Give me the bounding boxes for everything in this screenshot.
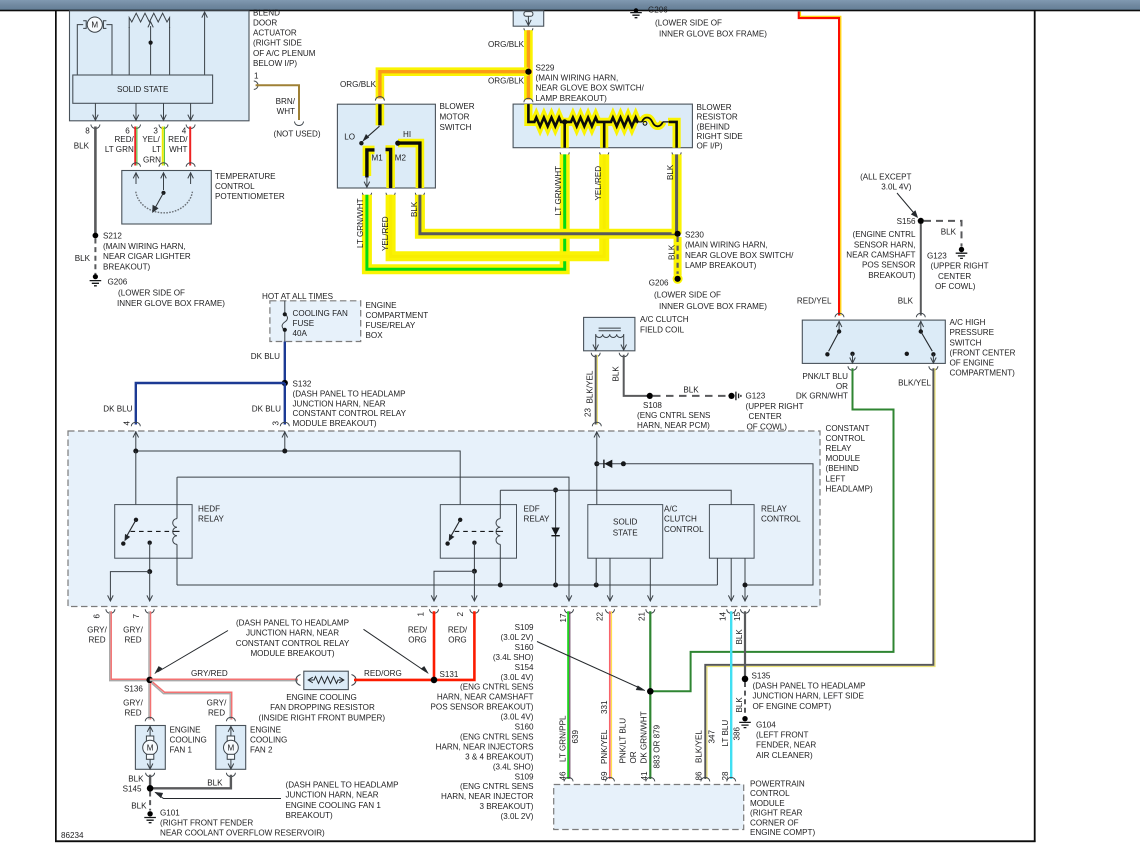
HEDF relay box	[115, 505, 225, 559]
svg-text:69: 69	[600, 771, 609, 781]
wire BLK dashed S135 to G104	[735, 682, 745, 716]
svg-text:23: 23	[583, 407, 592, 417]
svg-text:RED/: RED/	[408, 626, 428, 635]
ground G123 (near S108)	[728, 392, 803, 432]
wire ORG/BLK vertical (fuse to S229 to blower resistor)	[488, 30, 528, 99]
svg-text:LT GRN: LT GRN	[105, 145, 134, 154]
svg-text:BLK/YEL: BLK/YEL	[586, 370, 595, 403]
svg-text:YEL/RED: YEL/RED	[594, 166, 603, 201]
svg-text:883 OR 879: 883 OR 879	[653, 724, 662, 768]
wire BLK field coil to S108	[612, 355, 650, 396]
CCRM coil feed rail y477 to pin 17	[177, 477, 572, 601]
svg-text:M2: M2	[395, 154, 407, 163]
svg-text:GRY/: GRY/	[123, 699, 143, 708]
svg-text:(MAIN WIRING HARN,: (MAIN WIRING HARN,	[685, 241, 768, 250]
svg-text:6: 6	[93, 614, 102, 619]
svg-text:7: 7	[132, 614, 141, 619]
svg-text:OF A/C PLENUM: OF A/C PLENUM	[253, 49, 316, 58]
svg-text:CONTROL: CONTROL	[215, 182, 255, 191]
svg-text:ENGINE COOLING FAN 1: ENGINE COOLING FAN 1	[286, 801, 382, 810]
svg-text:OF I/P): OF I/P)	[697, 142, 723, 151]
svg-text:RIGHT SIDE: RIGHT SIDE	[697, 132, 744, 141]
svg-text:BLOWER: BLOWER	[697, 103, 732, 112]
svg-text:PRESSURE: PRESSURE	[950, 328, 995, 337]
ground G104	[739, 716, 816, 760]
svg-text:FAN DROPPING RESISTOR: FAN DROPPING RESISTOR	[270, 703, 375, 712]
svg-text:COOLING: COOLING	[250, 735, 287, 744]
svg-text:AIR CLEANER): AIR CLEANER)	[756, 751, 813, 760]
svg-text:G206: G206	[649, 279, 669, 288]
svg-text:LT GRN/PPL: LT GRN/PPL	[559, 715, 568, 762]
svg-text:INNER GLOVE BOX FRAME): INNER GLOVE BOX FRAME)	[659, 30, 767, 39]
blower switch feed wire (bold)	[376, 104, 385, 125]
svg-text:17: 17	[559, 613, 568, 623]
wire BLK fan 2 to S145	[152, 773, 235, 789]
CCRM pin 23 wire and top diode D2	[594, 431, 813, 585]
svg-text:ORG: ORG	[408, 636, 426, 645]
svg-text:RELAY: RELAY	[524, 515, 551, 524]
svg-text:(ENG CNTRL SENS: (ENG CNTRL SENS	[460, 683, 534, 692]
header bar	[0, 0, 1140, 11]
ground G206 bottom	[649, 274, 768, 311]
svg-text:NEAR GLOVE BOX SWITCH/: NEAR GLOVE BOX SWITCH/	[536, 84, 645, 93]
svg-text:JUNCTION HARN, NEAR: JUNCTION HARN, NEAR	[246, 629, 339, 638]
wire BLK fan 1 to S145	[128, 773, 154, 789]
pin 1 BRN/WHT (not used)	[254, 72, 321, 139]
CCRM switched feed rail y451	[133, 449, 460, 521]
svg-text:MOTOR: MOTOR	[440, 112, 470, 121]
svg-text:ORG/BLK: ORG/BLK	[488, 76, 525, 85]
fuse stub box top middle	[513, 11, 544, 33]
svg-text:RED: RED	[88, 636, 105, 645]
svg-text:(3.0L 4V): (3.0L 4V)	[501, 673, 534, 682]
junction DK GRN/WHT	[647, 688, 654, 695]
svg-text:3 & 4 BREAKOUT): 3 & 4 BREAKOUT)	[465, 752, 534, 761]
svg-text:BLOWER: BLOWER	[440, 102, 475, 111]
svg-text:(MAIN WIRING HARN,: (MAIN WIRING HARN,	[103, 242, 186, 251]
svg-text:BLK/YEL: BLK/YEL	[695, 730, 704, 763]
svg-text:LO: LO	[344, 133, 355, 142]
svg-text:LT GRN/WHT: LT GRN/WHT	[356, 198, 365, 248]
wire GRY/RED CCRM pin 6 to S136	[87, 611, 147, 680]
relay control bottom pins	[717, 558, 747, 601]
svg-text:MODULE: MODULE	[826, 454, 861, 463]
svg-text:3: 3	[272, 421, 281, 426]
svg-text:HARN, NEAR CAMSHAFT: HARN, NEAR CAMSHAFT	[437, 693, 534, 702]
svg-text:ORG/BLK: ORG/BLK	[488, 40, 525, 49]
svg-text:28: 28	[721, 771, 730, 781]
splice S131	[431, 670, 459, 683]
svg-text:DK BLU: DK BLU	[103, 405, 132, 414]
svg-text:(ALL EXCEPT: (ALL EXCEPT	[860, 173, 911, 182]
splice S229	[524, 63, 645, 103]
svg-text:RED/ORG: RED/ORG	[364, 669, 402, 678]
solid state box (blend door actuator)	[73, 75, 213, 103]
svg-text:46: 46	[559, 771, 568, 781]
wire GRY/RED S136 to fan 2	[152, 682, 236, 721]
svg-text:(DASH PANEL TO HEADLAMP: (DASH PANEL TO HEADLAMP	[286, 781, 399, 790]
diode D1 (EDF)	[551, 488, 559, 586]
svg-text:S136: S136	[124, 685, 143, 694]
svg-text:POS SENSOR BREAKOUT): POS SENSOR BREAKOUT)	[431, 703, 534, 712]
wire BLK/YEL from A/C switch to PCM pin 86	[695, 368, 935, 781]
svg-text:S109: S109	[515, 772, 534, 781]
svg-text:ENGINE: ENGINE	[366, 301, 398, 310]
svg-text:2: 2	[456, 612, 465, 617]
svg-text:COOLING FAN: COOLING FAN	[293, 309, 348, 318]
svg-text:STATE: STATE	[613, 529, 638, 538]
svg-text:(DASH PANEL TO HEADLAMP: (DASH PANEL TO HEADLAMP	[293, 390, 406, 399]
ground G123 (upper right of cowl)	[927, 247, 989, 291]
svg-text:RED: RED	[208, 709, 225, 718]
svg-text:COOLING: COOLING	[170, 735, 207, 744]
svg-text:(3.0L 2V): (3.0L 2V)	[501, 812, 534, 821]
svg-text:(DASH PANEL TO HEADLAMP: (DASH PANEL TO HEADLAMP	[236, 618, 349, 627]
constant control relay module box	[68, 424, 873, 607]
CCRM pin 3 entry	[282, 431, 288, 451]
svg-text:HARN, NEAR INJECTORS: HARN, NEAR INJECTORS	[436, 742, 534, 751]
wire LT BLU CCRM pin 14 to PCM pin 28	[721, 611, 742, 781]
HEDF relay internals	[121, 477, 179, 585]
svg-text:(RIGHT SIDE: (RIGHT SIDE	[253, 39, 302, 48]
svg-text:NEAR CAMSHAFT: NEAR CAMSHAFT	[846, 251, 915, 260]
ground G206 left	[90, 274, 226, 308]
svg-text:A/C: A/C	[664, 505, 678, 514]
svg-text:BELOW I/P): BELOW I/P)	[253, 59, 297, 68]
engine cooling fan dropping resistor	[259, 671, 386, 722]
svg-text:(ENG CNTRL SENS: (ENG CNTRL SENS	[460, 733, 534, 742]
svg-text:CORNER OF: CORNER OF	[750, 818, 799, 827]
svg-text:RED/YEL: RED/YEL	[797, 296, 832, 305]
svg-text:LEFT: LEFT	[826, 474, 846, 483]
svg-text:ORG/BLK: ORG/BLK	[340, 80, 377, 89]
svg-text:YEL/: YEL/	[142, 135, 160, 144]
svg-text:POTENTIOMETER: POTENTIOMETER	[215, 192, 285, 201]
svg-text:MODULE BREAKOUT): MODULE BREAKOUT)	[250, 649, 334, 658]
actuator pins 8 6 3 4	[85, 103, 195, 135]
svg-text:S135: S135	[752, 671, 771, 680]
svg-text:DK BLU: DK BLU	[252, 405, 281, 414]
svg-text:GRN: GRN	[143, 155, 161, 164]
blower motor switch box	[337, 102, 474, 188]
svg-text:FUSE: FUSE	[293, 319, 315, 328]
svg-text:S145: S145	[123, 785, 142, 794]
svg-text:LAMP BREAKOUT): LAMP BREAKOUT)	[685, 261, 757, 270]
svg-text:CONTROL: CONTROL	[664, 525, 704, 534]
svg-text:LAMP BREAKOUT): LAMP BREAKOUT)	[536, 94, 608, 103]
svg-text:WHT: WHT	[169, 145, 187, 154]
A/C clutch field coil box	[584, 315, 689, 357]
svg-text:OF ENGINE: OF ENGINE	[950, 359, 995, 368]
connector cups below blower switch	[362, 193, 424, 197]
svg-text:(LOWER SIDE OF: (LOWER SIDE OF	[118, 288, 185, 297]
svg-text:40A: 40A	[293, 329, 308, 338]
svg-text:G101: G101	[160, 808, 180, 817]
splice list text block	[431, 623, 535, 821]
svg-text:(RIGHT REAR: (RIGHT REAR	[750, 809, 803, 818]
wire DK BLU S132 to CCRM pin 4	[103, 383, 285, 426]
blower switch M2 contact	[386, 150, 407, 189]
svg-text:BOX: BOX	[366, 331, 384, 340]
svg-text:RELAY: RELAY	[761, 505, 788, 514]
svg-text:JUNCTION HARN, NEAR: JUNCTION HARN, NEAR	[286, 791, 379, 800]
svg-text:A/C CLUTCH: A/C CLUTCH	[640, 315, 689, 324]
svg-text:JUNCTION HARN, NEAR: JUNCTION HARN, NEAR	[293, 399, 386, 408]
svg-text:FIELD COIL: FIELD COIL	[640, 325, 685, 334]
svg-text:4: 4	[123, 421, 132, 426]
svg-text:BLK: BLK	[683, 385, 699, 394]
svg-text:S212: S212	[103, 232, 122, 241]
svg-text:(BEHIND: (BEHIND	[826, 464, 859, 473]
svg-text:NEAR CIGAR LIGHTER: NEAR CIGAR LIGHTER	[103, 252, 191, 261]
svg-text:(3.0L 4V): (3.0L 4V)	[501, 713, 534, 722]
svg-text:M1: M1	[372, 154, 384, 163]
svg-text:SOLID STATE: SOLID STATE	[117, 85, 169, 94]
wire ORG/BLK branch to blower switch	[340, 72, 532, 101]
svg-text:TEMPERATURE: TEMPERATURE	[215, 172, 276, 181]
svg-text:CONTROL: CONTROL	[826, 434, 866, 443]
wire BLK (resistor to S230)	[666, 154, 676, 233]
wire actuator top right	[202, 12, 208, 75]
svg-text:POS SENSOR: POS SENSOR	[862, 261, 916, 270]
svg-text:LT GRN/WHT: LT GRN/WHT	[554, 166, 563, 216]
EDF output junction to pins 1 and 2	[431, 569, 477, 601]
wire DK BLU S132 to CCRM pin 3	[252, 383, 290, 426]
CCRM solid state box	[588, 505, 704, 559]
svg-text:EDF: EDF	[524, 505, 540, 514]
svg-text:BLK: BLK	[410, 201, 419, 217]
svg-text:(UPPER RIGHT: (UPPER RIGHT	[931, 262, 989, 271]
svg-text:S132: S132	[293, 379, 312, 388]
svg-text:S230: S230	[685, 230, 704, 239]
svg-text:GRY/: GRY/	[123, 626, 143, 635]
connector cups below A/C pressure switch	[796, 366, 938, 400]
wire BLK dashed S212 to G206	[75, 239, 96, 276]
wire DK BLU fuse to S132	[251, 342, 285, 384]
svg-text:MODULE BREAKOUT): MODULE BREAKOUT)	[293, 419, 377, 428]
splice S212	[93, 232, 191, 272]
wire BLK dashed S156 to G123	[924, 221, 962, 247]
svg-text:HARN, NEAR PCM): HARN, NEAR PCM)	[637, 421, 710, 430]
svg-text:OR: OR	[629, 751, 638, 763]
svg-text:BLK: BLK	[666, 164, 675, 180]
svg-text:ENGINE COOLING: ENGINE COOLING	[286, 693, 357, 702]
svg-text:PNK/LT BLU: PNK/LT BLU	[802, 372, 848, 381]
svg-text:BREAKOUT): BREAKOUT)	[286, 811, 334, 820]
svg-text:BLK: BLK	[612, 366, 621, 382]
svg-text:CONSTANT CONTROL RELAY: CONSTANT CONTROL RELAY	[293, 409, 407, 418]
blower switch blade and LO contact	[344, 126, 411, 145]
svg-text:(ENG CNTRL SENS: (ENG CNTRL SENS	[460, 782, 534, 791]
CCRM coil return rail y585	[177, 583, 717, 588]
svg-text:RED/: RED/	[114, 135, 134, 144]
wire BLK/YEL field coil to CCRM pin 23	[583, 355, 601, 426]
temperature control potentiometer box	[122, 163, 285, 224]
wire RED/ORG CCRM pin 1 to S131	[408, 611, 468, 680]
svg-text:BLK: BLK	[668, 244, 677, 260]
svg-text:(LOWER SIDE OF: (LOWER SIDE OF	[655, 18, 722, 27]
svg-text:RED/: RED/	[168, 135, 188, 144]
powertrain control module box	[554, 780, 816, 838]
svg-text:FAN 1: FAN 1	[170, 745, 193, 754]
svg-text:INNER GLOVE BOX FRAME): INNER GLOVE BOX FRAME)	[659, 302, 767, 311]
wire BLK S156 to A/C pressure switch	[898, 224, 926, 317]
svg-text:G123: G123	[927, 251, 947, 260]
svg-text:S160: S160	[515, 643, 534, 652]
svg-text:639: 639	[571, 729, 580, 743]
svg-text:S156: S156	[897, 217, 916, 226]
svg-text:BLK: BLK	[74, 141, 90, 150]
svg-text:PNK/LT BLU: PNK/LT BLU	[619, 718, 628, 764]
svg-text:NEAR COOLANT OVERFLOW RESERVOI: NEAR COOLANT OVERFLOW RESERVOIR)	[160, 829, 325, 838]
wire DK GRN/WHT from A/C switch to DK GRN/WHT junction	[652, 368, 894, 691]
svg-text:BREAKOUT): BREAKOUT)	[103, 262, 151, 271]
svg-text:21: 21	[638, 611, 647, 621]
CCRM bottom connector cups	[93, 609, 750, 622]
svg-text:RELAY: RELAY	[826, 444, 853, 453]
svg-text:(INSIDE RIGHT FRONT BUMPER): (INSIDE RIGHT FRONT BUMPER)	[259, 713, 386, 722]
wire RED/LT GRN pin 6	[105, 127, 137, 166]
svg-text:ACTUATOR: ACTUATOR	[253, 29, 297, 38]
A/C pressure switch left contacts	[825, 321, 855, 363]
svg-text:(UPPER RIGHT: (UPPER RIGHT	[746, 402, 804, 411]
leader from splice list to DK GRN/WHT junction	[537, 642, 645, 691]
svg-text:CONSTANT CONTROL RELAY: CONSTANT CONTROL RELAY	[236, 639, 350, 648]
svg-text:RED/: RED/	[448, 626, 468, 635]
svg-text:CENTER: CENTER	[938, 272, 971, 281]
motor M (blend door actuator)	[77, 17, 112, 75]
svg-text:HEADLAMP): HEADLAMP)	[826, 484, 874, 493]
EDF relay internals	[445, 490, 503, 585]
svg-text:SOLID: SOLID	[613, 517, 637, 526]
EDF relay box	[440, 505, 550, 559]
svg-text:22: 22	[596, 611, 605, 621]
svg-text:HEDF: HEDF	[198, 505, 220, 514]
svg-text:MODULE: MODULE	[750, 799, 785, 808]
svg-text:BLK: BLK	[941, 227, 957, 236]
svg-text:CONSTANT: CONSTANT	[826, 424, 870, 433]
wire PNK/LT BLU or DK GRN/WHT CCRM pin 21 to PCM pin 41	[619, 611, 662, 781]
svg-text:1: 1	[254, 72, 259, 81]
svg-text:HARN, NEAR INJECTOR: HARN, NEAR INJECTOR	[441, 792, 534, 801]
svg-text:(MAIN WIRING HARN,: (MAIN WIRING HARN,	[536, 74, 619, 83]
blower switch HI contact	[395, 141, 420, 189]
svg-text:RED: RED	[124, 636, 141, 645]
wire BLK CCRM pin 15 to S135	[735, 611, 745, 679]
svg-text:331: 331	[600, 700, 609, 714]
svg-text:(ENG CNTRL SENS: (ENG CNTRL SENS	[637, 411, 711, 420]
ground G101	[144, 808, 325, 837]
svg-text:CONTROL: CONTROL	[761, 515, 801, 524]
svg-text:SENSOR HARN,: SENSOR HARN,	[854, 240, 916, 249]
svg-text:CENTER: CENTER	[749, 412, 782, 421]
wire YEL/RED loop (switch M2 to resistor)	[381, 154, 604, 256]
svg-text:ORG: ORG	[448, 636, 466, 645]
callout dash panel to headlamp (CCRM breakout)	[155, 618, 429, 673]
svg-text:FUSE/RELAY: FUSE/RELAY	[366, 321, 416, 330]
svg-text:3.0L 4V): 3.0L 4V)	[881, 183, 912, 192]
svg-text:BLK: BLK	[75, 254, 91, 263]
svg-text:INNER GLOVE BOX FRAME): INNER GLOVE BOX FRAME)	[117, 299, 225, 308]
svg-text:ENGINE COMPT): ENGINE COMPT)	[750, 828, 816, 837]
svg-text:DK BLU: DK BLU	[251, 352, 280, 361]
svg-text:RED: RED	[124, 709, 141, 718]
svg-text:41: 41	[640, 771, 649, 781]
svg-text:S154: S154	[515, 663, 534, 672]
svg-text:HOT AT ALL TIMES: HOT AT ALL TIMES	[262, 292, 334, 301]
svg-text:8: 8	[85, 127, 90, 136]
svg-text:S108: S108	[643, 401, 662, 410]
wire GRY/RED S136 to dropping resistor	[150, 669, 298, 681]
svg-text:HI: HI	[403, 130, 411, 139]
wire BLK dashed S145 to G101	[131, 792, 150, 811]
svg-text:A/C HIGH: A/C HIGH	[950, 318, 986, 327]
blend door actuator box	[70, 9, 316, 121]
svg-text:SWITCH: SWITCH	[950, 338, 982, 347]
svg-text:1: 1	[417, 612, 426, 617]
splice S136	[124, 677, 153, 694]
svg-text:SWITCH: SWITCH	[440, 123, 472, 132]
svg-text:COMPARTMENT): COMPARTMENT)	[950, 369, 1016, 378]
blower switch M1 contact	[364, 150, 383, 187]
svg-text:PNK/YEL: PNK/YEL	[600, 729, 609, 764]
wire RED/YEL from top to A/C pressure switch	[797, 12, 844, 318]
svg-text:BLK: BLK	[131, 801, 147, 810]
svg-text:(LEFT FRONT: (LEFT FRONT	[756, 731, 809, 740]
solid state bottom pins	[596, 558, 653, 601]
relay control box	[500, 490, 801, 558]
splice S108	[637, 393, 711, 430]
svg-text:ENGINE: ENGINE	[170, 725, 202, 734]
svg-text:(FRONT CENTER: (FRONT CENTER	[950, 348, 1016, 357]
svg-text:YEL/RED: YEL/RED	[381, 216, 390, 251]
svg-text:WHT: WHT	[277, 107, 295, 116]
svg-text:14: 14	[719, 611, 728, 621]
svg-text:DK GRN/WHT: DK GRN/WHT	[639, 711, 648, 763]
svg-text:BLK: BLK	[735, 697, 744, 713]
svg-text:S109: S109	[515, 623, 534, 632]
svg-text:DK GRN/WHT: DK GRN/WHT	[796, 392, 848, 401]
wire BLK pin 8	[74, 127, 96, 234]
splice S132	[282, 379, 407, 428]
svg-text:BLK: BLK	[207, 778, 223, 787]
svg-text:OF ENGINE COMPT): OF ENGINE COMPT)	[753, 702, 832, 711]
svg-text:FENDER, NEAR: FENDER, NEAR	[756, 741, 816, 750]
svg-text:(LOWER SIDE OF: (LOWER SIDE OF	[654, 291, 721, 300]
svg-text:RELAY: RELAY	[198, 515, 225, 524]
svg-text:FAN 2: FAN 2	[250, 745, 273, 754]
wire GRY/RED CCRM pin 7 to S136	[123, 611, 150, 677]
svg-text:OF COWL): OF COWL)	[747, 422, 788, 431]
wire LT GRN/PPL CCRM pin 17 to PCM pin 46	[559, 611, 580, 781]
svg-text:3 BREAKOUT): 3 BREAKOUT)	[480, 802, 534, 811]
svg-text:BLK: BLK	[898, 296, 914, 305]
svg-text:DOOR: DOOR	[253, 19, 277, 28]
connector cups below blower resistor	[560, 152, 681, 156]
wire RED/ORG resistor to S131 to pin 2	[354, 611, 474, 680]
splice S135	[742, 671, 866, 711]
svg-text:M: M	[91, 20, 98, 29]
engine compartment fuse/relay box	[262, 292, 428, 342]
svg-text:ENGINE: ENGINE	[250, 725, 282, 734]
svg-text:S229: S229	[536, 63, 555, 72]
engine cooling fan 2	[216, 725, 288, 769]
A/C high pressure switch box	[802, 318, 1015, 378]
svg-text:GRY/RED: GRY/RED	[191, 669, 228, 678]
svg-text:BLK: BLK	[128, 774, 144, 783]
svg-text:NEAR GLOVE BOX SWITCH/: NEAR GLOVE BOX SWITCH/	[685, 251, 794, 260]
svg-text:BRN/: BRN/	[276, 97, 296, 106]
